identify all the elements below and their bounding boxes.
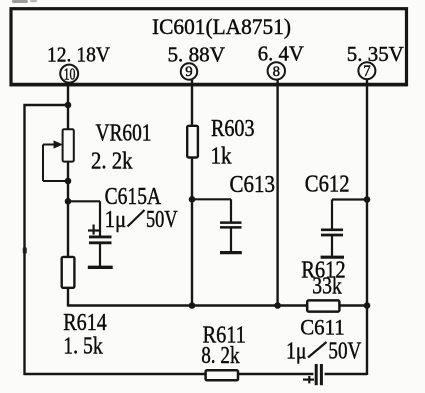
svg-text:IC601(LA8751): IC601(LA8751) bbox=[152, 14, 291, 39]
svg-text:1μ: 1μ bbox=[105, 206, 127, 233]
pin 10 bbox=[60, 64, 78, 83]
svg-text:C612: C612 bbox=[305, 171, 350, 198]
svg-text:6. 4V: 6. 4V bbox=[258, 42, 304, 66]
ground (C615A) bbox=[88, 266, 113, 269]
node VR601 wiper bbox=[65, 178, 72, 185]
svg-text:C611: C611 bbox=[300, 314, 345, 339]
wire pin9 down bbox=[191, 79, 193, 126]
scan smudge top bbox=[12, 0, 28, 3]
svg-text:10: 10 bbox=[64, 64, 76, 83]
svg-text:5. 88V: 5. 88V bbox=[168, 43, 226, 67]
wire right outer vertical bbox=[366, 79, 368, 375]
capacitor C612 bbox=[321, 200, 367, 256]
svg-text:33k: 33k bbox=[312, 273, 342, 300]
svg-text:7: 7 bbox=[363, 63, 371, 80]
svg-text:1μ: 1μ bbox=[286, 337, 307, 364]
svg-text:8. 2k: 8. 2k bbox=[201, 342, 240, 369]
wire top-left branch bbox=[24, 104, 69, 106]
svg-text:50V: 50V bbox=[146, 206, 178, 233]
svg-text:5. 35V: 5. 35V bbox=[347, 42, 404, 66]
resistor R612 bbox=[307, 300, 339, 311]
svg-text:1. 5k: 1. 5k bbox=[63, 332, 103, 359]
svg-text:1k: 1k bbox=[211, 142, 233, 169]
scan blob on left wire bbox=[23, 247, 27, 254]
svg-text:12. 18V: 12. 18V bbox=[47, 43, 110, 67]
node junction dots bbox=[65, 102, 371, 309]
svg-text:2. 2k: 2. 2k bbox=[91, 148, 133, 175]
pin 8 bbox=[268, 62, 285, 80]
node bus/pin8 bbox=[274, 302, 281, 309]
capacitor C615A bbox=[68, 201, 112, 266]
capacitor C611 bbox=[303, 364, 321, 385]
wire lower horizontal bus bbox=[68, 304, 306, 306]
node bus/pin9 bbox=[189, 302, 196, 309]
svg-text:8: 8 bbox=[273, 64, 280, 80]
svg-text:9: 9 bbox=[185, 63, 192, 80]
wire pin8 down bbox=[276, 79, 278, 307]
pin 9 bbox=[181, 63, 197, 80]
op-amp U1 : IC601 (LA8751) box bbox=[10, 9, 408, 85]
svg-text:R603: R603 bbox=[211, 115, 255, 142]
capacitor C613 bbox=[192, 199, 242, 251]
resistor R603 bbox=[187, 126, 198, 158]
wire left outer vertical bbox=[23, 104, 25, 375]
resistor R614 bbox=[62, 257, 75, 288]
ground (C612) bbox=[321, 256, 344, 259]
resistor VR601 bbox=[43, 129, 74, 181]
wire bottom outer horizontal bbox=[24, 373, 207, 375]
resistor R611 bbox=[206, 370, 238, 380]
node C613 tap bbox=[189, 196, 196, 203]
svg-text:C613: C613 bbox=[230, 171, 276, 198]
node pin10/left branch bbox=[65, 102, 72, 109]
node C612 tap bbox=[364, 196, 371, 203]
node bus/right wire bbox=[364, 302, 371, 309]
svg-text:50V: 50V bbox=[328, 337, 361, 364]
svg-text:VR601: VR601 bbox=[96, 119, 152, 146]
node C615A tap bbox=[65, 198, 72, 205]
wire pin10 down bbox=[67, 82, 69, 130]
ground (C613) bbox=[220, 251, 242, 254]
pin 7 bbox=[358, 62, 375, 80]
